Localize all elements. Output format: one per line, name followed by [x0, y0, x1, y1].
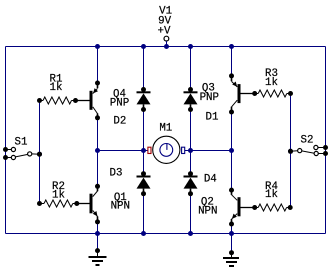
wire: D4 anode to ground rail [190, 192, 192, 234]
junction: D4 column on ground rail [188, 231, 193, 236]
transistor Q3 (PNP) [200, 73, 255, 114]
diode D2 (top-left flyback diode) [113, 87, 150, 128]
power +V supply V1 [158, 6, 173, 47]
junction: V1 tap on +V rail [164, 44, 169, 49]
switch S2 (SPDT) [288, 135, 328, 157]
junction: node B (right motor terminal) [229, 148, 234, 153]
switch S1 (SPDT) [3, 137, 42, 161]
resistor R3 1k [252, 68, 293, 97]
wire: R3 to S2 to R4 (right base column) [290, 94, 292, 208]
wire: +V rail to D2 cathode [143, 47, 145, 90]
svg-text:PNP: PNP [110, 98, 129, 110]
transistor Q1 (NPN) [77, 184, 130, 225]
resistor R4 1k [252, 181, 293, 211]
wire: Q1 emitter to ground rail [97, 222, 99, 234]
diode D3 (bottom-left flyback diode) [110, 168, 151, 197]
junction: node A (left motor terminal) [95, 148, 100, 153]
wire: R1 to S1 to R2 (left base column) [39, 101, 41, 204]
junction: Q4 emitter column on +V rail [95, 44, 100, 49]
wire: +V top rail [6, 46, 326, 48]
svg-text:1k: 1k [265, 77, 278, 89]
junction: Q3 emitter column on +V rail [229, 44, 234, 49]
junction: node A tap at D2/D3 column [141, 148, 146, 153]
svg-text:D4: D4 [204, 174, 217, 186]
wire: Q2 emitter to ground rail [231, 224, 233, 234]
junction: S1 common tap [37, 152, 42, 157]
wire: +V rail to Q3 emitter [231, 47, 233, 76]
svg-text:+V: +V [158, 26, 171, 38]
svg-text:M1: M1 [159, 123, 172, 135]
diode D1 (top-right flyback diode) [184, 87, 219, 123]
junction: Q1 arm on ground rail [95, 231, 100, 236]
svg-text:1k: 1k [52, 190, 65, 202]
wire: Q4 collector to node A [97, 118, 99, 187]
resistor R1 1k [37, 74, 78, 105]
junction: D2 column on +V rail [141, 44, 146, 49]
resistor R2 1k [37, 181, 79, 207]
wire: D2 anode to D3 cathode [143, 110, 145, 174]
wire: node A to motor M1 left terminal [98, 150, 148, 152]
junction: D1 column on +V rail [188, 44, 193, 49]
junction: node B tap at D1/D4 column [188, 148, 193, 153]
wire: D3 anode to ground rail [143, 192, 145, 234]
diode D4 (bottom-right flyback diode) [184, 171, 217, 196]
wire: Q3 collector to node B [231, 112, 233, 190]
motor M1 [148, 123, 185, 164]
wire: D1 anode to D4 cathode [190, 110, 192, 174]
svg-text:1k: 1k [50, 82, 63, 94]
svg-text:D2: D2 [113, 116, 126, 128]
wire: +V rail to Q4 emitter [97, 47, 99, 84]
ground (below Q1 emitter) [89, 234, 107, 266]
wire: left border (S1 throw net) [5, 47, 7, 234]
svg-text:NPN: NPN [198, 206, 217, 218]
svg-text:D1: D1 [206, 111, 219, 123]
wire: right border (S2 throw net) [325, 47, 327, 234]
svg-text:S2: S2 [301, 135, 314, 147]
svg-text:S1: S1 [15, 137, 28, 149]
svg-text:D3: D3 [110, 168, 123, 180]
svg-text:PNP: PNP [200, 92, 219, 104]
junction: S2 common tap [288, 149, 293, 154]
transistor Q4 (PNP) [76, 81, 130, 121]
wire: motor M1 right terminal to node B [185, 150, 232, 152]
wire: +V rail to D1 cathode [190, 47, 192, 90]
junction: D3 column on ground rail [141, 231, 146, 236]
junction: Q2 arm on ground rail [229, 231, 234, 236]
wire: ground bottom rail [6, 233, 326, 235]
svg-text:NPN: NPN [111, 201, 130, 213]
transistor Q2 (NPN) [198, 188, 255, 227]
ground (below Q2 emitter) [223, 234, 239, 267]
svg-text:1k: 1k [265, 189, 278, 201]
